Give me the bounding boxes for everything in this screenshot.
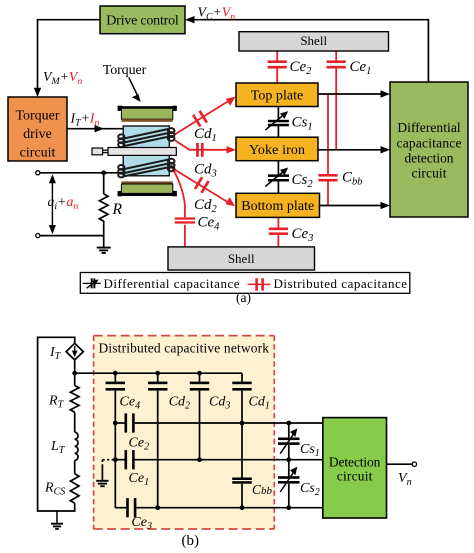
svg-text:(a): (a) bbox=[236, 290, 251, 305]
svg-text:Torquer: Torquer bbox=[103, 63, 147, 78]
svg-text:Shell: Shell bbox=[300, 33, 327, 48]
svg-text:Cbb: Cbb bbox=[252, 482, 273, 497]
svg-text:Drive control: Drive control bbox=[106, 14, 179, 29]
svg-text:capacitance: capacitance bbox=[397, 135, 462, 150]
svg-text:Top plate: Top plate bbox=[251, 89, 304, 104]
svg-text:Bottom plate: Bottom plate bbox=[241, 199, 314, 214]
svg-text:Differential: Differential bbox=[397, 120, 461, 135]
svg-text:Yoke iron: Yoke iron bbox=[249, 143, 305, 158]
svg-text:Differential capacitance: Differential capacitance bbox=[104, 276, 240, 291]
svg-text:circuit: circuit bbox=[412, 165, 447, 180]
svg-text:circuit: circuit bbox=[20, 146, 56, 161]
svg-text:(b): (b) bbox=[182, 533, 200, 549]
svg-text:Shell: Shell bbox=[228, 251, 255, 266]
svg-text:circuit: circuit bbox=[337, 468, 373, 483]
svg-text:drive: drive bbox=[23, 127, 52, 142]
svg-text:Distributed capacitive network: Distributed capacitive network bbox=[99, 341, 270, 356]
svg-text:Distributed capacitance: Distributed capacitance bbox=[274, 276, 408, 291]
svg-text:R: R bbox=[112, 201, 123, 218]
svg-text:Torquer: Torquer bbox=[15, 109, 59, 124]
svg-text:detection: detection bbox=[405, 150, 454, 165]
